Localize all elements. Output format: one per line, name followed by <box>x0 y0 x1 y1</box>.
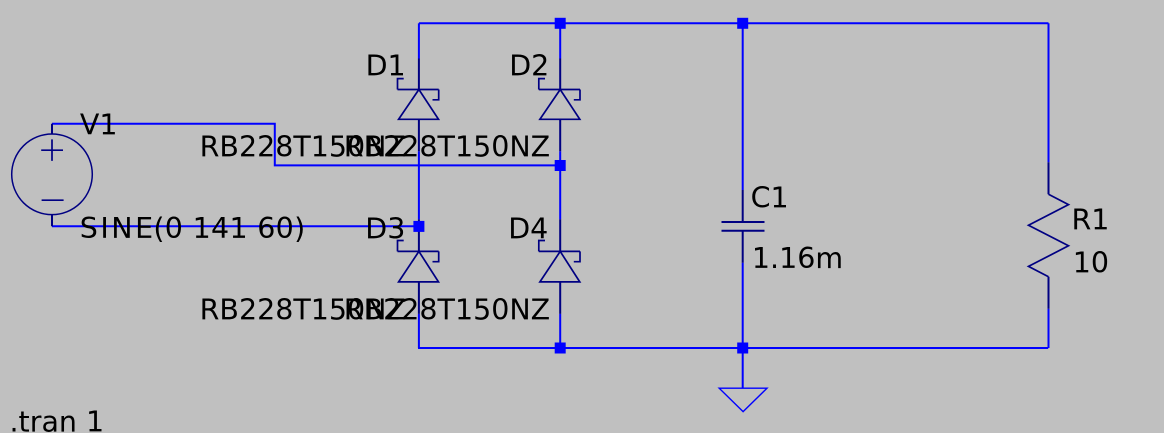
svg-text:D1: D1 <box>366 50 406 83</box>
svg-text:D4: D4 <box>508 212 548 245</box>
svg-text:D3: D3 <box>365 212 405 245</box>
svg-text:10: 10 <box>1073 247 1109 280</box>
svg-text:(0 141 60): (0 141 60) <box>153 212 305 245</box>
svg-text:R1: R1 <box>1072 204 1110 237</box>
svg-text:D2: D2 <box>509 50 549 83</box>
svg-text:RB228T150NZ: RB228T150NZ <box>344 293 550 326</box>
svg-text:C1: C1 <box>751 181 789 214</box>
svg-text:1.16m: 1.16m <box>752 242 843 275</box>
svg-text:V1: V1 <box>80 109 118 142</box>
svg-text:SINE: SINE <box>80 212 154 245</box>
svg-text:.tran 1: .tran 1 <box>10 405 105 433</box>
svg-text:RB228T150NZ: RB228T150NZ <box>344 130 550 163</box>
